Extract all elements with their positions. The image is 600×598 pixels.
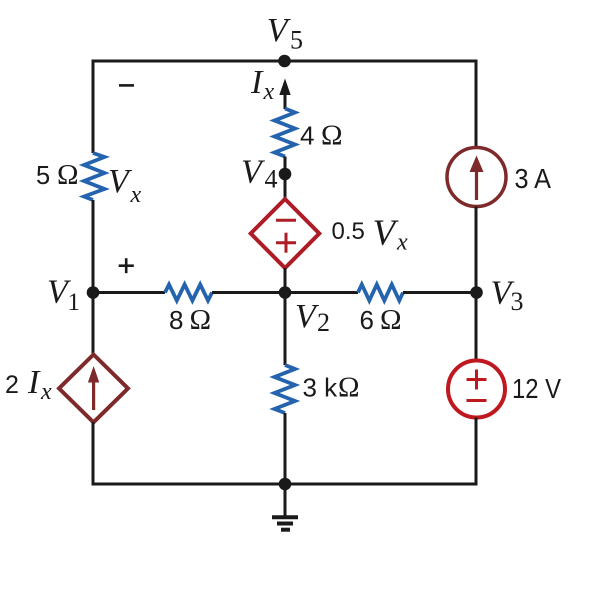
resistor 6 Ohm (358, 285, 403, 301)
node V1 dot (87, 286, 100, 299)
svg-text:x: x (263, 79, 275, 105)
ground symbol (272, 517, 298, 529)
svg-text:Ω: Ω (190, 304, 212, 336)
wire V4 segment (284, 157, 287, 201)
wire left middle (92, 200, 95, 355)
svg-text:x: x (396, 230, 408, 256)
svg-text:x: x (40, 379, 52, 405)
wire diamond to V2 (284, 268, 287, 365)
svg-text:Ω: Ω (338, 372, 360, 404)
wire 3k to bottom (284, 413, 287, 484)
svg-text:2: 2 (317, 308, 330, 337)
label minus polarity Vx (119, 84, 134, 87)
resistor 8 Ohm (165, 285, 212, 301)
svg-text:x: x (130, 182, 142, 208)
svg-text:4: 4 (300, 121, 314, 151)
svg-text:Ω: Ω (380, 304, 402, 336)
wire right middle (475, 207, 478, 361)
label plus polarity Vx (119, 258, 134, 273)
svg-text:5: 5 (36, 162, 50, 190)
plus sign inside 0.5Vx (276, 233, 296, 253)
svg-text:2: 2 (5, 371, 19, 399)
node ground junction dot (279, 478, 292, 491)
svg-text:5: 5 (290, 26, 303, 55)
dependent current source 2Ix diamond (59, 355, 128, 423)
svg-text:8: 8 (169, 305, 183, 335)
current source 3A circle (447, 148, 506, 207)
arrow of 3A source (470, 156, 484, 201)
svg-text:3 k: 3 k (303, 373, 339, 403)
voltage source 12V circle (448, 361, 505, 418)
wire middle horizontal V1 to 8 Ohm (93, 291, 165, 294)
svg-text:1: 1 (68, 289, 81, 316)
wire middle horizontal 8 Ohm to 6 Ohm (212, 291, 358, 294)
svg-text:12 V: 12 V (512, 373, 562, 404)
svg-text:3 A: 3 A (515, 163, 552, 194)
ground stub (284, 484, 287, 517)
resistor 5 Ohm (84, 153, 105, 200)
wire left lower (92, 422, 95, 486)
node V2 dot (279, 286, 292, 299)
svg-text:Ω: Ω (321, 120, 343, 152)
svg-text:I: I (250, 64, 264, 101)
arrow of 2Ix source (88, 366, 99, 410)
wire left upper (92, 60, 95, 154)
dependent voltage source 0.5Vx diamond (251, 199, 320, 268)
minus sign inside 12V (467, 399, 487, 402)
svg-text:I: I (27, 364, 41, 401)
node V4 dot (279, 168, 292, 181)
resistor 3k Ohm (275, 365, 296, 413)
wire right lower (475, 418, 478, 486)
arrow Ix on middle branch (279, 79, 290, 110)
wire right upper (475, 60, 478, 148)
wire bottom (93, 483, 476, 486)
node V3 dot (470, 286, 483, 299)
svg-text:6: 6 (360, 305, 374, 335)
svg-text:0.5: 0.5 (332, 218, 365, 245)
svg-text:3: 3 (511, 287, 524, 316)
plus sign inside 12V (467, 370, 487, 390)
wire middle horizontal 6 Ohm to V3 (403, 291, 476, 294)
wire top (93, 60, 476, 63)
node V5 dot (278, 55, 291, 68)
svg-text:4: 4 (265, 165, 278, 194)
resistor 4 Ohm (275, 109, 296, 157)
minus sign inside 0.5Vx (276, 219, 296, 222)
svg-text:Ω: Ω (57, 159, 79, 191)
